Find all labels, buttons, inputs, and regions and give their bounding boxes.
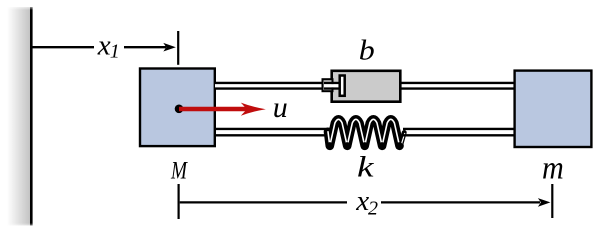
wire x1 leader left segment — [31, 46, 94, 48]
bottom rod right segment — [403, 128, 515, 130]
spring k — [328, 119, 400, 146]
damper cylinder b — [332, 71, 401, 102]
svg-text:k: k — [357, 152, 375, 184]
damper collar — [323, 79, 333, 91]
mass m — [515, 71, 592, 147]
mass M — [140, 69, 215, 147]
top rod left segment (damper rod) — [215, 82, 341, 90]
svg-text:m: m — [542, 151, 564, 187]
top rod right segment — [401, 82, 515, 84]
wire x1 leader right segment with arrow — [124, 46, 166, 48]
svg-text:x: x — [97, 30, 111, 62]
damper piston — [340, 76, 345, 96]
svg-text:M: M — [170, 156, 188, 185]
wire x2 line right segment with arrow — [381, 201, 540, 203]
bottom rod left segment (spring rod) — [215, 128, 328, 130]
dot: center of mass M — [175, 105, 184, 114]
wire x2 line left segment — [180, 201, 347, 203]
damper rod into cylinder — [324, 84, 340, 87]
force arrow u — [179, 107, 252, 111]
svg-text:2: 2 — [368, 198, 378, 220]
spring bottom vertex caps — [327, 142, 333, 148]
wall — [7, 7, 31, 226]
node x2 left tick — [178, 184, 180, 219]
svg-text:u: u — [273, 91, 288, 124]
node x1 tick — [177, 31, 179, 65]
node x2 right tick — [551, 184, 553, 218]
svg-text:1: 1 — [110, 41, 120, 63]
svg-text:b: b — [359, 36, 375, 67]
